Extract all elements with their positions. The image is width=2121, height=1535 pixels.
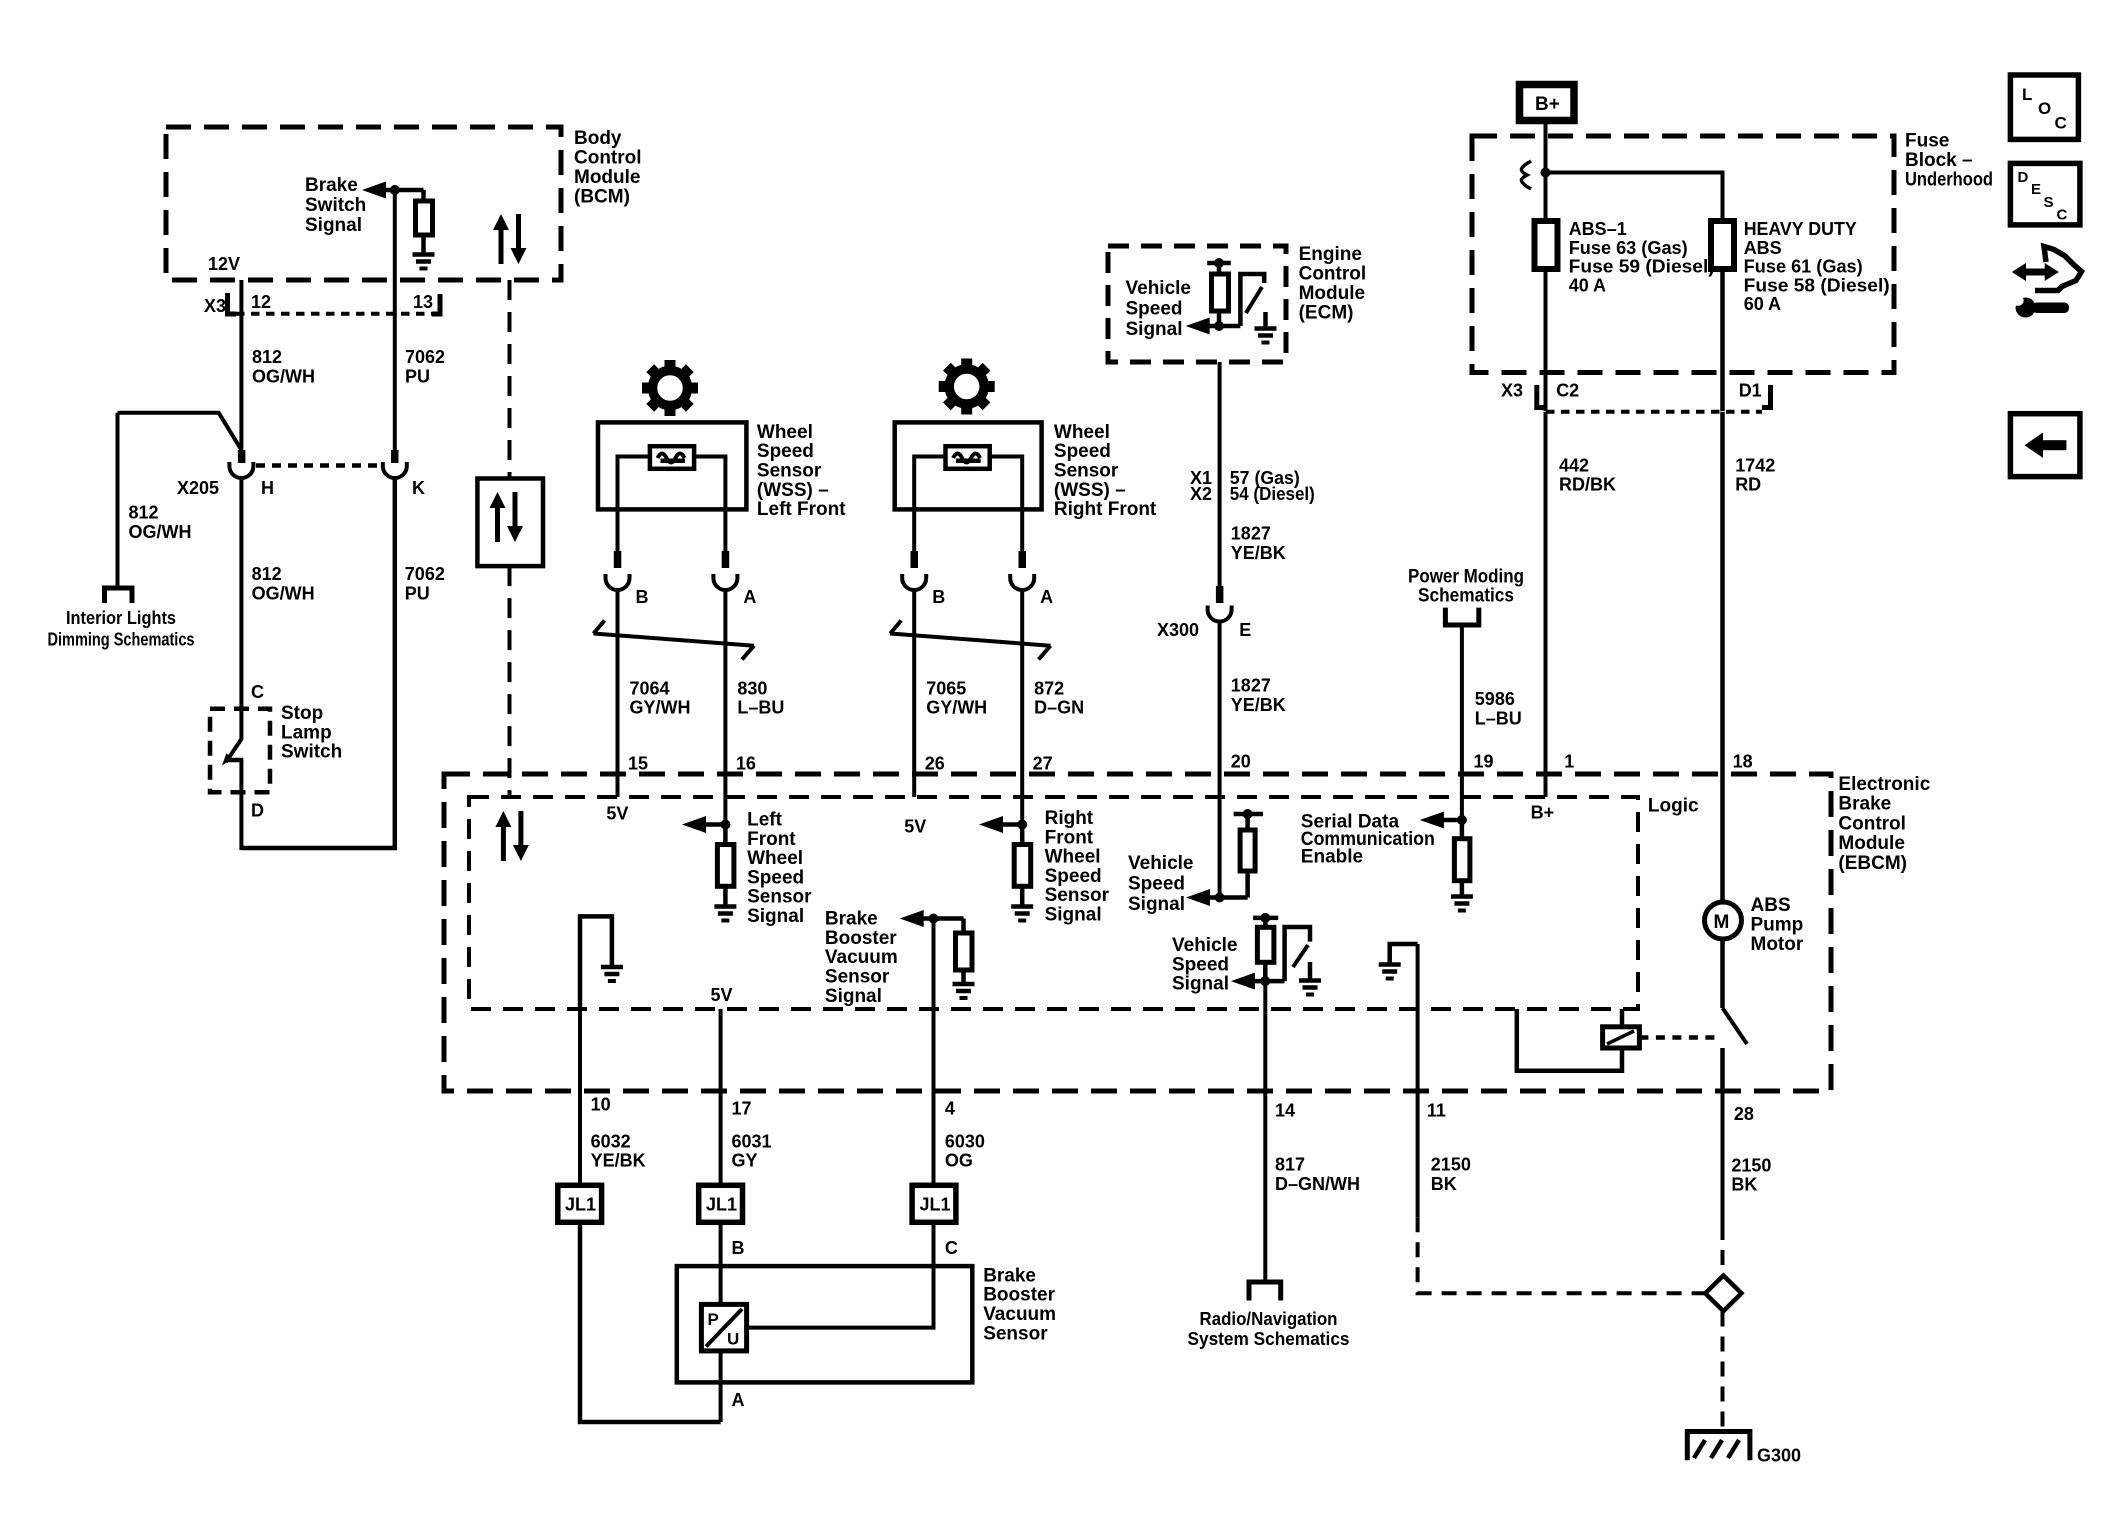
- wire 442 B+ feed: [1544, 121, 1548, 222]
- wire 12 (BCM pin 12 to X205 H): [239, 280, 243, 452]
- svg-text:15: 15: [628, 754, 648, 774]
- node junction wire 13 / brake switch: [390, 185, 400, 195]
- svg-text:Module: Module: [1299, 283, 1366, 304]
- svg-text:7064: 7064: [630, 678, 670, 698]
- wire 13 (7062 from junction down to connector K): [393, 190, 397, 452]
- label 5986 L-BU: [1475, 689, 1522, 728]
- svg-text:OG/WH: OG/WH: [252, 584, 315, 604]
- svg-text:Speed: Speed: [1128, 874, 1185, 895]
- arrow Right Front WSS Signal: [979, 816, 1003, 833]
- label 812 OG/WH (branch wire): [129, 503, 192, 543]
- svg-text:PU: PU: [405, 367, 430, 387]
- svg-text:830: 830: [737, 678, 767, 698]
- svg-text:RD/BK: RD/BK: [1559, 475, 1616, 495]
- svg-text:26: 26: [925, 754, 945, 774]
- svg-text:YE/BK: YE/BK: [1231, 695, 1286, 715]
- svg-text:C: C: [2057, 207, 2068, 224]
- wheel speed sensor right front box: [895, 422, 1042, 509]
- svg-text:U: U: [727, 1330, 739, 1349]
- ground ECM internal: [1263, 312, 1268, 327]
- svg-text:12V: 12V: [208, 254, 240, 274]
- svg-text:OG/WH: OG/WH: [252, 367, 315, 387]
- svg-text:Right Front: Right Front: [1054, 499, 1157, 520]
- label 7062 PU (pin 13 wire): [405, 347, 445, 387]
- label 6030 OG: [945, 1131, 985, 1170]
- svg-text:JL1: JL1: [920, 1195, 951, 1215]
- label 2150 BK (pin 28): [1731, 1155, 1771, 1194]
- icon DESC box: [2010, 163, 2079, 225]
- label 812 OG/WH (pin 12 wire): [252, 347, 315, 387]
- label Wheel Speed Sensor (WSS) - Left Front: [757, 422, 846, 520]
- label X1 X2: [1190, 468, 1212, 504]
- wire sensor A down: [719, 1351, 723, 1422]
- node junction B+ split: [1541, 168, 1551, 178]
- resistor ECM VSS pull-up: [1217, 263, 1222, 274]
- svg-text:JL1: JL1: [706, 1195, 737, 1215]
- svg-text:GY: GY: [732, 1151, 758, 1171]
- svg-text:(ECM): (ECM): [1299, 303, 1354, 324]
- icon car outline: [2035, 247, 2082, 291]
- svg-text:12: 12: [251, 292, 271, 312]
- arrow Brake Switch Signal: [362, 182, 386, 199]
- switch ECM VSS driver: [1240, 274, 1264, 326]
- svg-text:1827: 1827: [1231, 676, 1271, 696]
- label 6032 YE/BK: [591, 1131, 646, 1170]
- svg-text:BK: BK: [1431, 1174, 1457, 1194]
- svg-text:OG/WH: OG/WH: [129, 522, 192, 542]
- svg-text:D–GN/WH: D–GN/WH: [1275, 1174, 1360, 1194]
- svg-text:6030: 6030: [945, 1131, 985, 1151]
- svg-text:Speed: Speed: [757, 441, 814, 462]
- svg-text:Signal: Signal: [1172, 974, 1229, 995]
- svg-text:Fuse 61 (Gas): Fuse 61 (Gas): [1744, 257, 1863, 277]
- ground G300: [1687, 1432, 1750, 1461]
- wire 812 below switch: [239, 760, 243, 850]
- svg-text:X2: X2: [1190, 484, 1212, 504]
- svg-text:Electronic: Electronic: [1838, 774, 1930, 795]
- label 1742 RD: [1735, 455, 1775, 494]
- svg-text:Front: Front: [1045, 827, 1094, 848]
- connector female WSS LF A: [713, 574, 737, 590]
- svg-text:C: C: [945, 1238, 958, 1258]
- svg-text:Fuse 58 (Diesel): Fuse 58 (Diesel): [1744, 276, 1890, 296]
- terminal male WSS LF B: [614, 551, 622, 568]
- svg-text:Radio/Navigation: Radio/Navigation: [1200, 1309, 1338, 1329]
- svg-text:S: S: [2044, 194, 2054, 211]
- svg-text:Interior Lights: Interior Lights: [66, 608, 176, 628]
- svg-text:L–BU: L–BU: [1475, 708, 1522, 728]
- svg-text:A: A: [732, 1390, 745, 1410]
- svg-text:60 A: 60 A: [1744, 294, 1781, 314]
- svg-text:Schematics: Schematics: [1418, 586, 1514, 607]
- svg-text:18: 18: [1733, 752, 1753, 772]
- gear icon right front: [939, 359, 995, 415]
- node junction ECM VSS: [1214, 321, 1224, 331]
- svg-text:K: K: [412, 478, 425, 498]
- wheel speed sensor left front box: [598, 422, 746, 509]
- svg-text:Speed: Speed: [1045, 866, 1102, 887]
- label 6031 GY: [732, 1131, 772, 1170]
- terminal male WSS LF A: [722, 551, 730, 568]
- wire 6032 JL1 down and across to A: [580, 1222, 721, 1422]
- svg-text:Fuse 63 (Gas): Fuse 63 (Gas): [1569, 238, 1688, 258]
- relay linkage dotted: [1639, 1035, 1718, 1040]
- svg-text:10: 10: [591, 1095, 611, 1115]
- wire 2150 pin 11 solid: [1416, 1091, 1420, 1217]
- svg-text:A: A: [1040, 587, 1053, 607]
- svg-text:B: B: [932, 587, 945, 607]
- label Stop Lamp Switch: [281, 703, 342, 763]
- wire WSS RF internal left: [914, 457, 945, 557]
- ground pin 4: [953, 984, 975, 998]
- wire switch to pin 28: [1720, 1048, 1725, 1091]
- svg-text:54 (Diesel): 54 (Diesel): [1230, 484, 1315, 504]
- svg-text:(WSS) –: (WSS) –: [1054, 480, 1126, 501]
- connector X3 right bracket: [432, 294, 440, 314]
- connector fuse row left bracket: [1537, 385, 1546, 408]
- connector female X205-H: [229, 462, 253, 478]
- splice JL1 (wire 6032): [558, 1185, 602, 1222]
- svg-text:Body: Body: [574, 128, 622, 149]
- svg-text:OG: OG: [945, 1151, 973, 1171]
- ground BCM internal: [413, 255, 435, 269]
- wire 6032 pin 10: [578, 1009, 582, 1185]
- label Right Front Wheel Speed Sensor Signal: [1045, 808, 1110, 925]
- svg-text:X205: X205: [177, 478, 219, 498]
- svg-text:Sensor: Sensor: [825, 967, 890, 988]
- label Power Moding Schematics: [1408, 566, 1524, 606]
- svg-text:H: H: [261, 478, 274, 498]
- label ABS-1 Fuse 63 (Gas) Fuse 59 (Diesel) 40 A: [1569, 219, 1715, 295]
- label HEAVY DUTY ABS Fuse 61 (Gas) Fuse 58 (Diesel) 60 A: [1744, 219, 1890, 314]
- icon wrench: [2004, 291, 2069, 318]
- wire 1827 YE/BK (X300 to EBCM pin 20): [1218, 621, 1222, 898]
- label Brake Booster Vacuum Sensor: [983, 1265, 1056, 1344]
- connector female WSS RF B: [902, 574, 926, 590]
- wire 2150 pin 11 dashed: [1418, 1217, 1706, 1293]
- Body Control Module (BCM) dashed box: [166, 127, 561, 280]
- svg-text:Fuse: Fuse: [1905, 131, 1949, 152]
- connector diamond splice: [1705, 1276, 1741, 1312]
- arrow Brake Booster Vacuum Sensor Signal: [900, 910, 924, 927]
- node pin 14 5V bar: [1253, 916, 1278, 921]
- wire 830 L-BU: [723, 589, 727, 825]
- svg-text:E: E: [2031, 181, 2041, 198]
- svg-text:Speed: Speed: [1054, 441, 1111, 462]
- wire 5986 L-BU: [1460, 625, 1464, 820]
- svg-text:X3: X3: [204, 296, 226, 316]
- label 7064 GY/WH: [630, 678, 691, 717]
- label Engine Control Module (ECM): [1299, 244, 1367, 324]
- svg-text:Sensor: Sensor: [747, 887, 812, 908]
- svg-text:Stop: Stop: [281, 703, 323, 724]
- wire 6031 JL1 to sensor B: [719, 1222, 723, 1304]
- svg-text:Vehicle: Vehicle: [1126, 278, 1192, 299]
- svg-text:Signal: Signal: [1128, 894, 1185, 915]
- ground pin 10 internal: [580, 916, 612, 1009]
- wire relay coil return: [1517, 1009, 1622, 1071]
- WSS RF coil element: [946, 446, 990, 469]
- label Vehicle Speed Signal (ECM): [1126, 278, 1192, 340]
- label 1827 YE/BK (upper): [1231, 524, 1286, 563]
- splice JL1 (wire 6030): [912, 1185, 956, 1222]
- svg-text:B: B: [732, 1238, 745, 1258]
- svg-text:YE/BK: YE/BK: [591, 1151, 646, 1171]
- power symbol B+ box: [1520, 85, 1575, 121]
- wire serial data dashed box to EBCM: [508, 566, 512, 797]
- svg-text:5V: 5V: [904, 816, 926, 836]
- svg-text:6031: 6031: [732, 1131, 772, 1151]
- fuse HEAVY DUTY ABS: [1711, 221, 1734, 269]
- svg-text:Motor: Motor: [1751, 934, 1804, 955]
- off-page connector Interior Lights: [105, 588, 133, 603]
- wire brake switch signal horizontal: [384, 188, 424, 193]
- svg-text:817: 817: [1275, 1155, 1305, 1175]
- svg-text:L–BU: L–BU: [737, 698, 784, 718]
- svg-text:Booster: Booster: [983, 1285, 1055, 1306]
- svg-text:Brake: Brake: [983, 1265, 1036, 1286]
- wire 817 pin 14: [1263, 981, 1267, 1282]
- resistor pin 4: [961, 919, 966, 934]
- svg-text:X300: X300: [1157, 620, 1199, 640]
- node junction pin 20: [1215, 893, 1225, 903]
- wire bottom return D to 7062: [241, 477, 394, 848]
- connector X3 dotted line: [236, 312, 432, 316]
- svg-text:Sensor: Sensor: [757, 461, 822, 482]
- svg-text:27: 27: [1033, 754, 1053, 774]
- svg-text:Wheel: Wheel: [757, 422, 813, 443]
- svg-text:19: 19: [1474, 752, 1494, 772]
- svg-text:2150: 2150: [1431, 1155, 1471, 1175]
- wire 812 from H into stop lamp switch: [239, 477, 243, 740]
- ground pin 16: [714, 907, 736, 921]
- svg-text:Vehicle: Vehicle: [1128, 853, 1194, 874]
- svg-text:872: 872: [1034, 678, 1064, 698]
- label Brake Switch Signal: [305, 175, 366, 236]
- svg-text:7062: 7062: [405, 564, 445, 584]
- svg-text:Signal: Signal: [747, 906, 804, 927]
- svg-text:Signal: Signal: [1045, 904, 1102, 925]
- svg-text:Signal: Signal: [1126, 319, 1183, 340]
- up/down arrows inside EBCM logic: [495, 811, 529, 861]
- switch lower contact: [228, 758, 243, 763]
- svg-text:Wheel: Wheel: [1054, 422, 1110, 443]
- svg-text:Brake: Brake: [1838, 794, 1891, 815]
- splice symbol: [1521, 161, 1531, 189]
- ground pin 27: [1011, 907, 1033, 921]
- wire WSS LF internal left: [618, 457, 650, 557]
- wire 442 RD/BK down to EBCM pin 1: [1544, 412, 1548, 797]
- svg-text:Engine: Engine: [1299, 244, 1362, 265]
- resistor pin 16: [723, 825, 728, 845]
- label Left Front Wheel Speed Sensor Signal: [747, 810, 812, 927]
- svg-text:M: M: [1714, 912, 1730, 933]
- svg-text:Vacuum: Vacuum: [983, 1304, 1056, 1325]
- arrow Vehicle Speed Signal (pin 20): [1186, 889, 1210, 906]
- wire 2150 pin 28 dashed: [1721, 1225, 1725, 1275]
- switch blade stop lamp: [226, 739, 241, 762]
- ground pin 11 internal: [1390, 944, 1418, 963]
- svg-text:5V: 5V: [711, 985, 733, 1005]
- arrow Left Front WSS Signal: [682, 816, 706, 833]
- svg-text:D: D: [251, 801, 264, 821]
- label Vehicle Speed Signal (pin 20): [1128, 853, 1194, 915]
- wire motor to switch: [1720, 939, 1725, 1008]
- Fuse Block Underhood dashed box: [1472, 136, 1894, 373]
- wire 1827 YE/BK (ECM to X300): [1218, 362, 1222, 587]
- wire 6031 pin 17: [719, 1009, 723, 1185]
- resistor pin 20: [1245, 814, 1250, 830]
- wire B+ split horizontal: [1546, 173, 1723, 222]
- connector female WSS RF A: [1010, 574, 1034, 590]
- wire pin 11 internal: [1416, 944, 1420, 1091]
- svg-text:13: 13: [413, 292, 433, 312]
- svg-text:GY/WH: GY/WH: [630, 698, 691, 718]
- svg-text:C2: C2: [1556, 381, 1579, 401]
- svg-text:C: C: [2055, 114, 2067, 133]
- svg-text:1742: 1742: [1735, 455, 1775, 475]
- icon double arrow: [2012, 263, 2059, 281]
- label 442 RD/BK: [1559, 455, 1616, 494]
- svg-text:1: 1: [1564, 752, 1574, 772]
- terminal male K: [391, 450, 399, 463]
- label 57 (Gas) 54 (Diesel): [1230, 468, 1315, 504]
- label 2150 BK (pin 11): [1431, 1155, 1471, 1194]
- svg-text:Control: Control: [1299, 264, 1367, 285]
- svg-text:D–GN: D–GN: [1034, 698, 1084, 718]
- wire serial data dashed BCM to arrow box: [508, 280, 512, 479]
- connector female X205-K: [383, 462, 407, 478]
- svg-text:YE/BK: YE/BK: [1231, 543, 1286, 563]
- connector female WSS LF B: [606, 574, 630, 590]
- up/down arrows inside BCM: [493, 214, 527, 264]
- svg-text:Speed: Speed: [1126, 299, 1183, 320]
- svg-text:P: P: [708, 1310, 719, 1329]
- svg-text:11: 11: [1427, 1101, 1446, 1121]
- svg-text:ABS–1: ABS–1: [1569, 219, 1627, 239]
- svg-text:Speed: Speed: [1172, 954, 1229, 975]
- connector fuse row dotted line: [1546, 410, 1762, 414]
- label 817 D-GN/WH: [1275, 1155, 1360, 1194]
- label 7062 PU (below K): [405, 564, 445, 604]
- motor ABS pump M: [1705, 902, 1742, 939]
- svg-text:7065: 7065: [926, 678, 966, 698]
- svg-text:Fuse 59 (Diesel): Fuse 59 (Diesel): [1569, 257, 1715, 277]
- svg-text:Lamp: Lamp: [281, 722, 332, 743]
- svg-text:Sensor: Sensor: [983, 1323, 1048, 1344]
- svg-text:X3: X3: [1501, 381, 1523, 401]
- node ECM top bar: [1207, 261, 1231, 266]
- stop lamp switch dashed box: [210, 709, 270, 793]
- label 830 L-BU: [737, 678, 784, 717]
- svg-text:Booster: Booster: [825, 928, 897, 949]
- svg-text:14: 14: [1275, 1101, 1295, 1121]
- svg-text:812: 812: [252, 347, 282, 367]
- svg-text:Switch: Switch: [305, 195, 366, 216]
- svg-text:O: O: [2038, 99, 2051, 118]
- Brake Booster Vacuum Sensor box: [677, 1266, 973, 1382]
- ground pin 19: [1451, 897, 1473, 911]
- svg-text:Dimming Schematics: Dimming Schematics: [48, 630, 195, 650]
- svg-text:16: 16: [736, 754, 756, 774]
- svg-text:Module: Module: [1838, 833, 1905, 854]
- svg-text:E: E: [1239, 620, 1251, 640]
- pressure transducer P/U: [701, 1304, 746, 1351]
- resistor BCM pull-up: [421, 190, 426, 201]
- wire WSS RF internal right: [990, 457, 1023, 557]
- svg-text:Switch: Switch: [281, 742, 342, 763]
- svg-text:GY/WH: GY/WH: [926, 698, 987, 718]
- svg-text:Sensor: Sensor: [1054, 461, 1119, 482]
- wire diamond to G300 dashed: [1721, 1312, 1725, 1431]
- svg-text:Left: Left: [747, 810, 783, 831]
- svg-text:40 A: 40 A: [1569, 276, 1606, 296]
- svg-text:Wheel: Wheel: [747, 848, 803, 869]
- label Serial Data Communication Enable: [1301, 812, 1435, 868]
- connector fuse row right bracket: [1762, 385, 1771, 408]
- WSS LF coil element: [650, 446, 694, 469]
- icon LOC box: [2010, 75, 2078, 139]
- terminal male WSS RF B: [911, 551, 919, 568]
- terminal male X300 E: [1216, 586, 1224, 603]
- arrow Serial Data Communication Enable: [1420, 812, 1444, 829]
- wire 7064 GY/WH: [616, 589, 620, 797]
- svg-text:C: C: [251, 682, 264, 702]
- svg-text:Speed: Speed: [747, 868, 804, 889]
- splice JL1 (wire 6031): [699, 1185, 743, 1222]
- label Body Control Module (BCM): [574, 128, 642, 208]
- node junction pin 4: [929, 914, 939, 924]
- label 1827 YE/BK (lower): [1231, 676, 1286, 715]
- svg-text:Right: Right: [1045, 808, 1094, 829]
- wire 1742 RD down to ABS pump motor: [1720, 412, 1725, 902]
- svg-text:ABS: ABS: [1744, 238, 1782, 258]
- svg-text:Underhood: Underhood: [1905, 170, 1993, 191]
- svg-text:JL1: JL1: [565, 1195, 596, 1215]
- svg-text:17: 17: [732, 1099, 752, 1119]
- twisted pair symbol WSS RF: [890, 621, 1050, 660]
- connector X205 dashed line: [256, 463, 380, 468]
- wire 2150 pin 28: [1721, 1091, 1725, 1225]
- svg-text:Block –: Block –: [1905, 150, 1973, 171]
- serial data direction box: [477, 479, 543, 567]
- node pin 20 5V bar: [1234, 812, 1263, 817]
- wire 6030 JL1 to sensor C: [747, 1222, 934, 1327]
- connector female X300 E: [1208, 606, 1232, 622]
- svg-text:7062: 7062: [405, 347, 445, 367]
- label 7065 GY/WH: [926, 678, 987, 717]
- svg-text:B+: B+: [1531, 803, 1555, 823]
- svg-text:Pump: Pump: [1751, 915, 1804, 936]
- node junction pin 16: [720, 820, 730, 830]
- svg-text:812: 812: [129, 503, 159, 523]
- wire 7065 GY/WH: [912, 589, 916, 797]
- fuse ABS-1: [1535, 221, 1558, 269]
- resistor pin 27: [1020, 825, 1025, 845]
- svg-text:Left Front: Left Front: [757, 499, 846, 520]
- ground pin 14 switch: [1308, 962, 1313, 979]
- svg-text:PU: PU: [405, 584, 430, 604]
- connector X3 left bracket: [228, 293, 237, 314]
- node junction pin 19: [1457, 815, 1467, 825]
- resistor pin 14: [1263, 918, 1268, 927]
- off-page connector Radio/Navigation: [1249, 1282, 1281, 1301]
- svg-text:Control: Control: [1838, 813, 1906, 834]
- svg-text:812: 812: [252, 564, 282, 584]
- svg-text:28: 28: [1734, 1104, 1754, 1124]
- switch relay contact: [1723, 1008, 1748, 1044]
- svg-text:2150: 2150: [1731, 1155, 1771, 1175]
